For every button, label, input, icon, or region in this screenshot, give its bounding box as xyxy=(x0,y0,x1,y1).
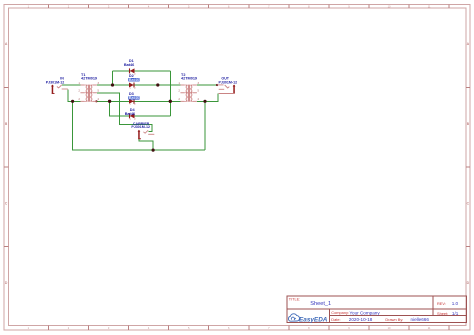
svg-text:PJ301M-12: PJ301M-12 xyxy=(219,80,238,84)
diode D2 (Bat46) xyxy=(129,83,134,88)
svg-text:1/1: 1/1 xyxy=(452,311,459,316)
junction (T2.4 / riser) xyxy=(203,100,206,103)
frame row ticks left xyxy=(4,87,9,89)
connector CARRIER (PJ301M-12 jack) xyxy=(138,130,140,138)
svg-text:REV:: REV: xyxy=(437,301,446,306)
wire left riser D1-D2 xyxy=(112,71,114,85)
svg-text:nielle666: nielle666 xyxy=(411,317,430,322)
diode D1 (Bat46) xyxy=(130,68,135,73)
OUT tip pin dot xyxy=(216,84,218,86)
wire ground rail xyxy=(73,101,205,150)
svg-text:Sheet_1: Sheet_1 xyxy=(310,301,331,307)
pin-end dot T1.4 xyxy=(95,100,97,102)
junction (IN sleeve / ground) xyxy=(71,100,74,103)
junction (D2 row / left riser) xyxy=(111,83,114,86)
svg-text:2020-10-18: 2020-10-18 xyxy=(349,317,373,322)
svg-text:D1: D1 xyxy=(129,59,134,63)
svg-text:PJ301M-12: PJ301M-12 xyxy=(46,80,65,84)
svg-text:Your Company: Your Company xyxy=(349,310,380,315)
diode D4 (Bat46) xyxy=(130,113,135,118)
frame column ticks top xyxy=(47,4,49,8)
svg-text:Bat46: Bat46 xyxy=(129,78,139,82)
wire T2 pin4 stub xyxy=(197,100,205,102)
wire IN tip to T1 pin1 xyxy=(62,84,80,86)
svg-text:OUT: OUT xyxy=(221,77,229,81)
wire right riser to rail xyxy=(204,101,206,150)
svg-text:Bat46: Bat46 xyxy=(129,96,139,100)
svg-text:IN: IN xyxy=(60,77,64,81)
junction (D3 row / left riser) xyxy=(108,100,111,103)
frame column ticks bottom xyxy=(47,326,49,330)
frame row ticks right xyxy=(466,87,470,89)
wire T1 pin4 to T2 pin2 (D3 row) xyxy=(97,100,180,102)
wire D1 row xyxy=(113,70,171,72)
svg-text:1.0: 1.0 xyxy=(452,301,459,306)
wire OUT sleeve down-left xyxy=(205,93,218,101)
junction (D2 row mid) xyxy=(156,83,159,86)
wire T1 pin5 to CARRIER tip xyxy=(97,93,152,132)
svg-text:TITLE:: TITLE: xyxy=(289,297,300,301)
wire T1 pin3 to T2 pin1 (D2 row) xyxy=(97,84,180,86)
diode D3 (Bat46) xyxy=(129,99,134,104)
svg-text:EasyEDA: EasyEDA xyxy=(299,316,328,323)
svg-text:42TM019: 42TM019 xyxy=(81,77,97,81)
svg-text:Drawn By:: Drawn By: xyxy=(385,317,403,322)
title block outline xyxy=(287,296,466,322)
wire CARRIER sleeve to rail xyxy=(139,138,153,151)
connector OUT (PJ301M-12 jack, mirrored) xyxy=(233,85,235,93)
svg-text:Sheet:: Sheet: xyxy=(437,311,448,316)
svg-text:Date:: Date: xyxy=(331,317,340,322)
connector IN (PJ301M-12 jack) xyxy=(52,85,54,93)
transformer T1 (42TM019) xyxy=(80,85,97,102)
svg-text:D3: D3 xyxy=(129,92,134,96)
svg-text:PJ301M-12: PJ301M-12 xyxy=(131,125,150,129)
svg-text:Bat46: Bat46 xyxy=(125,112,135,116)
wire D4 row with left riser xyxy=(110,101,171,116)
wire T2 pin3 to OUT tip xyxy=(197,84,217,86)
wire IN sleeve to T1 pin2 xyxy=(68,89,80,101)
junction (D3 row / right riser) xyxy=(169,100,172,103)
transformer T2 (42TM019) xyxy=(180,85,197,102)
svg-text:Bat46: Bat46 xyxy=(124,63,134,67)
svg-text:Company:: Company: xyxy=(331,310,349,315)
wire right riser D1-D4 xyxy=(169,71,171,116)
svg-text:42TM019: 42TM019 xyxy=(181,77,197,81)
EasyEDA logo xyxy=(288,314,299,321)
junction (carrier sleeve / rail) xyxy=(152,149,155,152)
svg-text:D2: D2 xyxy=(129,74,134,78)
